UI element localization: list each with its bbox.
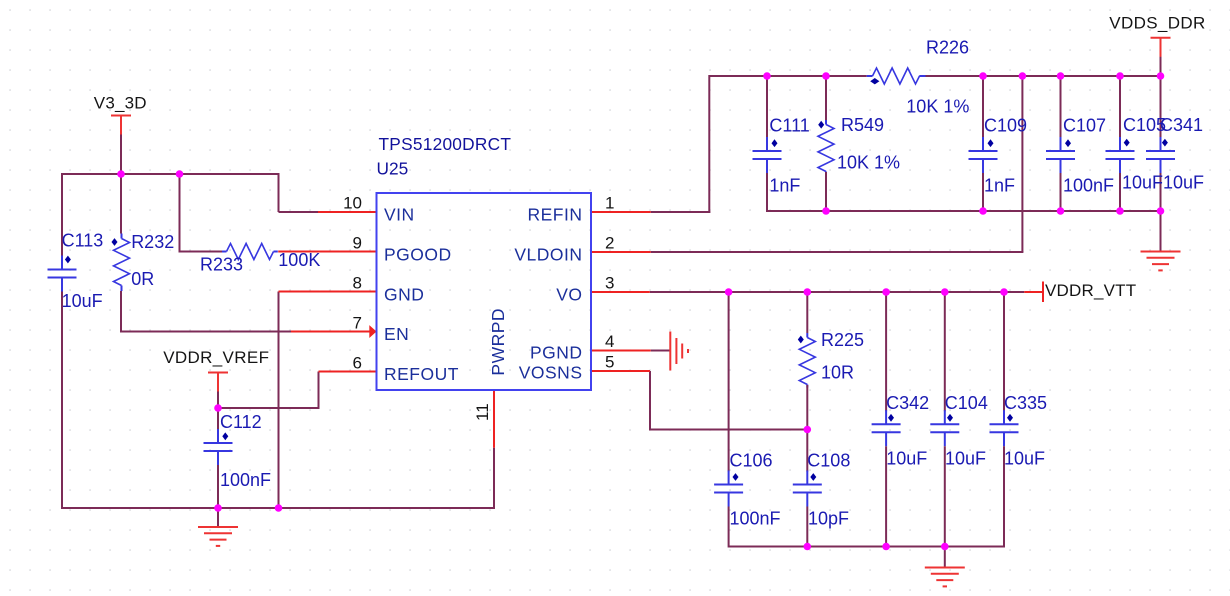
svg-text:100nF: 100nF (730, 509, 781, 529)
svg-text:PGND: PGND (530, 343, 583, 363)
svg-text:C108: C108 (807, 451, 850, 471)
svg-text:R226: R226 (926, 38, 969, 58)
svg-text:11: 11 (473, 403, 492, 421)
svg-text:C335: C335 (1004, 393, 1047, 413)
svg-text:10uF: 10uF (1163, 173, 1204, 193)
svg-text:C111: C111 (769, 115, 809, 135)
svg-text:REFIN: REFIN (528, 205, 583, 225)
svg-text:10uF: 10uF (886, 449, 927, 469)
svg-text:10uF: 10uF (1004, 449, 1045, 469)
svg-text:6: 6 (353, 354, 362, 373)
svg-text:0R: 0R (131, 269, 154, 289)
svg-text:V3_3D: V3_3D (94, 93, 147, 112)
svg-text:10K 1%: 10K 1% (837, 153, 900, 173)
svg-text:R549: R549 (841, 115, 884, 135)
svg-text:PWRPD: PWRPD (488, 308, 508, 376)
svg-text:10pF: 10pF (808, 509, 849, 529)
svg-text:3: 3 (605, 274, 614, 293)
svg-text:10uF: 10uF (1122, 173, 1163, 193)
svg-text:VLDOIN: VLDOIN (514, 245, 582, 265)
svg-text:4: 4 (605, 332, 614, 351)
svg-text:TPS51200DRCT: TPS51200DRCT (379, 134, 512, 154)
svg-text:PGOOD: PGOOD (384, 245, 452, 265)
svg-text:C113: C113 (62, 231, 104, 251)
svg-text:VDDR_VTT: VDDR_VTT (1045, 281, 1136, 300)
svg-text:C104: C104 (945, 393, 988, 413)
svg-text:R232: R232 (131, 232, 174, 252)
svg-text:10: 10 (343, 194, 362, 213)
svg-text:100nF: 100nF (220, 470, 271, 490)
svg-text:1: 1 (605, 194, 614, 213)
svg-text:9: 9 (353, 234, 362, 253)
svg-text:1nF: 1nF (984, 175, 1015, 195)
svg-text:1nF: 1nF (769, 175, 800, 195)
svg-text:VDDR_VREF: VDDR_VREF (163, 348, 269, 367)
svg-text:2: 2 (605, 234, 614, 253)
svg-text:C107: C107 (1063, 115, 1106, 135)
svg-text:100nF: 100nF (1063, 175, 1114, 195)
svg-text:VO: VO (556, 285, 582, 305)
svg-text:VIN: VIN (384, 205, 415, 225)
svg-text:10uF: 10uF (62, 291, 103, 311)
svg-text:C106: C106 (730, 451, 773, 471)
svg-text:C341: C341 (1160, 115, 1203, 135)
svg-text:5: 5 (605, 353, 614, 372)
svg-text:R233: R233 (200, 255, 243, 275)
svg-text:100K: 100K (278, 250, 320, 270)
svg-text:EN: EN (384, 324, 409, 344)
svg-text:VDDS_DDR: VDDS_DDR (1109, 14, 1205, 33)
svg-text:7: 7 (353, 314, 362, 333)
svg-text:VOSNS: VOSNS (519, 363, 583, 383)
svg-text:10K 1%: 10K 1% (906, 96, 969, 116)
svg-text:C109: C109 (984, 115, 1027, 135)
svg-text:GND: GND (384, 285, 424, 305)
svg-text:C112: C112 (220, 412, 262, 432)
svg-text:10uF: 10uF (945, 449, 986, 469)
svg-text:10R: 10R (821, 363, 854, 383)
svg-text:U25: U25 (377, 159, 409, 179)
svg-text:REFOUT: REFOUT (384, 364, 459, 384)
svg-text:8: 8 (353, 274, 362, 293)
svg-text:C342: C342 (886, 393, 929, 413)
svg-text:R225: R225 (821, 330, 864, 350)
